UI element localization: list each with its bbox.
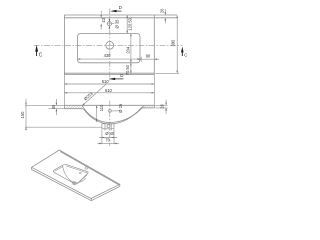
leader Ø253 (bowl radius) [82,83,107,106]
svg-text:150: 150 [20,111,25,119]
counter back inner edge line [64,17,177,19]
svg-text:430: 430 [104,53,112,58]
bowl opening outline [53,164,88,184]
dimension 610 section view (top) [64,92,154,94]
svg-text:43: 43 [101,17,106,22]
back edge bevel line [60,152,119,186]
dimension 26 (right slab edge height) [155,100,167,114]
dimension row (drain pipe) [97,130,119,145]
svg-text:26: 26 [160,104,165,109]
dimension 204 and 70.50 vertical line [130,34,132,75]
section left edge [63,105,65,108]
svg-text:D: D [120,73,123,78]
counter front edge second line [64,74,154,76]
section slab bottom left [64,108,83,110]
faucet hole center cross [107,21,112,26]
overflow hole in section with leader [109,110,112,113]
svg-text:70: 70 [105,138,110,143]
section marker D top: arrow [110,5,122,13]
bottom thickness edge at corner [90,199,92,201]
left thickness edge [31,167,33,169]
counter top face outline [32,150,120,199]
svg-text:Ø 45: Ø 45 [105,131,115,136]
drain fitting in section [102,124,114,131]
hatch right slab [141,105,154,108]
drain hole circle [106,41,114,49]
vertical centerline / section cut D-D [109,9,111,81]
dimension 43 (faucet hole to back edge) [100,11,102,30]
svg-text:120.50: 120.50 [127,17,132,30]
dimension 120.50 (back edge to bowl) [126,15,128,34]
faucet hole in 3D [85,167,88,169]
bowl inner rim line right [79,175,87,183]
front-right lower edge [91,186,120,200]
svg-text:204: 204 [125,46,130,54]
horizontal centerline / section cut C-C [34,44,183,46]
section top surface line [64,104,154,106]
dimension 390 (overall depth) [155,15,179,73]
section vertical centerline [109,101,111,147]
drain ellipse in 3D [72,181,77,186]
bowl inner rim line back [66,166,88,173]
svg-text:26: 26 [159,8,164,13]
right thickness edge [119,184,121,186]
counter right edge [153,15,155,75]
svg-text:D: D [119,5,122,10]
dimension 150 (total height to drain) [25,99,102,131]
svg-text:90: 90 [146,54,151,59]
svg-text:390: 390 [171,39,176,47]
overflow hole in 3D [79,172,81,174]
counter front edge outer line [64,72,154,74]
svg-text:Ø 35: Ø 35 [114,19,119,29]
svg-text:610: 610 [102,79,110,84]
dimension 430 (bowl width) [78,58,141,60]
dimension 110 (bowl depth) [96,105,98,122]
dimension 35 (slab edge height) [49,99,65,115]
bowl inner curve [82,106,143,123]
dimension 26 (back edge band) [164,9,166,23]
drain hole center cross [105,40,115,50]
svg-text:35: 35 [51,104,56,109]
svg-text:610: 610 [105,88,113,93]
svg-text:70.50: 70.50 [125,64,130,75]
dimension Ø35 (faucet hole) [109,18,114,29]
section marker C right: arrow [181,47,188,58]
dimension 610 top view (bottom) [64,75,154,106]
section slab bottom right [141,107,155,109]
bowl opening rounded rectangle [78,34,141,63]
faucet hole circle [107,22,111,26]
bowl interior curve [63,166,86,183]
section marker D bottom: arrow [109,73,124,80]
dimension 90 (bowl to right edge) [137,57,160,62]
section marker C left: arrow [35,45,43,59]
front-left lower edge [32,170,92,201]
section right edge [154,105,156,108]
counter left edge [63,15,65,75]
svg-text:C: C [39,53,43,59]
hatch left slab [65,105,83,108]
bowl inner rim line left [55,166,64,171]
svg-text:110: 110 [99,104,104,111]
bowl outer curve [83,108,141,124]
counter back outer edge line [64,14,177,16]
svg-text:Ø 25: Ø 25 [118,103,123,113]
